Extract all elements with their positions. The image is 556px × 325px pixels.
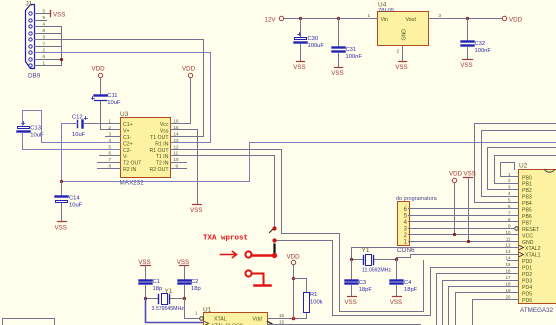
terminal 12V input — [265, 16, 284, 23]
wire DB9 loopback vertical — [61, 27, 63, 66]
svg-text:XTAL1: XTAL1 — [525, 253, 541, 259]
wire C1 to crystal row — [145, 286, 147, 299]
svg-text:100uF: 100uF — [308, 43, 325, 49]
terminal VDD output — [502, 16, 522, 23]
wire PB3 from right edge — [482, 131, 556, 197]
U1 output marker — [268, 322, 272, 325]
U3 internal pin names left — [123, 122, 142, 173]
svg-text:R2 OUT: R2 OUT — [149, 167, 169, 173]
wire 12V to U4 Vin — [284, 18, 378, 20]
wire junction to C14 — [61, 182, 63, 197]
svg-text:C11: C11 — [107, 93, 117, 99]
svg-text:XTAL: XTAL — [214, 317, 227, 323]
wire U3 pin11 T1IN down to jumper — [171, 156, 275, 227]
capacitor C2 18p — [179, 279, 201, 292]
svg-text:14: 14 — [505, 256, 511, 261]
capacitor C31 100nF — [333, 47, 363, 60]
power VSS above GND row — [464, 171, 476, 178]
wire C13 top loop to U3 pin4 — [23, 111, 121, 143]
power VSS below C4 — [390, 297, 402, 307]
wire PD5 from bottom — [456, 293, 508, 325]
svg-text:CON6: CON6 — [397, 247, 415, 254]
svg-text:VDD: VDD — [509, 17, 523, 24]
svg-text:13: 13 — [174, 138, 180, 143]
svg-text:J1: J1 — [26, 1, 33, 8]
svg-text:16: 16 — [505, 269, 511, 274]
svg-text:VSS: VSS — [460, 62, 472, 69]
svg-text:TXA wprost: TXA wprost — [203, 235, 248, 243]
svg-text:C4: C4 — [404, 280, 412, 286]
svg-text:DB9: DB9 — [28, 73, 41, 80]
wire C4 to VSS — [396, 286, 398, 297]
U3 pin2 row alias — [106, 129, 121, 131]
svg-text:T2 IN: T2 IN — [156, 161, 169, 167]
svg-text:VDD: VDD — [449, 171, 463, 178]
svg-text:18p: 18p — [153, 286, 163, 292]
wire bottom left stub — [3, 319, 55, 325]
wire to C30 — [300, 19, 302, 37]
node DB9 loop junction — [60, 58, 63, 61]
power VSS below U3 — [190, 205, 202, 215]
capacitor C13 10uF — [18, 122, 44, 139]
svg-text:PB3: PB3 — [522, 195, 532, 201]
svg-text:C13: C13 — [30, 126, 41, 132]
regulator U4 78L05 body — [378, 12, 429, 46]
wire DB9 pin2 to U3 R1IN — [35, 53, 211, 143]
svg-text:11: 11 — [506, 236, 511, 241]
svg-text:Y1: Y1 — [362, 247, 370, 254]
node VDD VCC — [453, 233, 456, 236]
wire VDD to C11 — [100, 78, 102, 95]
svg-text:C2-: C2- — [123, 148, 132, 154]
wire crystal row Y1b — [146, 298, 185, 300]
U1 clock arrow — [205, 322, 209, 325]
wire C12 left plate down to junction row — [62, 124, 78, 182]
power VDD above VCC row — [449, 171, 463, 183]
module U1 XTAL CLOCK body — [204, 313, 268, 325]
svg-text:12: 12 — [505, 243, 511, 248]
wire C14 to VSS — [61, 204, 63, 222]
crystal Y1 3.579545MHz — [152, 288, 185, 312]
svg-text:PD0: PD0 — [522, 259, 532, 265]
U3 left pin stubs — [98, 124, 121, 169]
capacitor C32 100nF — [462, 41, 492, 54]
svg-text:T1 OUT: T1 OUT — [150, 135, 169, 141]
node Vout C32 — [466, 17, 469, 20]
wire GND junction row under U3 — [62, 143, 556, 182]
U3 right pin numbers — [174, 118, 180, 168]
svg-text:PB5: PB5 — [522, 208, 532, 214]
wire C11 to U3 pin2 — [101, 102, 121, 130]
power VSS below C14 — [55, 222, 67, 232]
power VSS at DB9 pin5 — [51, 11, 66, 19]
svg-text:18: 18 — [505, 282, 511, 287]
svg-text:12: 12 — [174, 144, 180, 149]
power VSS below C3 — [344, 297, 356, 307]
svg-text:R2 IN: R2 IN — [123, 167, 137, 173]
svg-text:MAX232: MAX232 — [120, 180, 145, 187]
svg-text:VDD: VDD — [287, 254, 301, 261]
wire CON6 pin3 to RESET — [409, 228, 515, 230]
svg-text:VCC: VCC — [522, 233, 533, 239]
jumper pin tick — [270, 230, 273, 233]
wire U1 Vdd row to R1 — [268, 313, 307, 319]
node crystal right — [395, 258, 398, 261]
svg-text:15: 15 — [279, 320, 285, 325]
svg-text:PD6: PD6 — [522, 298, 532, 304]
svg-text:VDD: VDD — [92, 66, 106, 73]
power VSS below C31 — [331, 68, 343, 78]
svg-text:11.0592MHz: 11.0592MHz — [362, 268, 391, 274]
wire VDD tap to R1 top — [294, 279, 307, 293]
svg-text:10uF: 10uF — [107, 100, 121, 106]
capacitor C4 18pF — [391, 280, 418, 293]
svg-text:U3: U3 — [120, 111, 129, 118]
wire CON6 pin4 to PB7 — [409, 221, 508, 223]
svg-text:18p: 18p — [191, 286, 201, 292]
node crystal left — [350, 258, 353, 261]
annotation arrow — [221, 252, 237, 258]
wire VSS to GND row — [468, 178, 470, 242]
svg-text:GND: GND — [522, 240, 534, 246]
svg-text:XTAL2: XTAL2 — [525, 246, 541, 252]
svg-text:PD2: PD2 — [522, 272, 532, 278]
svg-text:do programatora: do programatora — [396, 196, 438, 202]
wire to C32 — [467, 19, 469, 41]
wire C1 junction to U1 clock pin — [146, 299, 204, 323]
svg-text:VSS: VSS — [344, 299, 356, 306]
wire crystal row Y1 — [352, 259, 397, 261]
svg-text:20: 20 — [505, 294, 511, 299]
connector J1 DB9 body — [26, 5, 35, 69]
U3 left pin numbers — [109, 118, 112, 168]
svg-text:VSS: VSS — [390, 299, 402, 306]
svg-text:C1: C1 — [153, 279, 160, 285]
U2 XTAL1 clock arrow — [520, 253, 524, 257]
svg-text:C30: C30 — [308, 36, 319, 42]
svg-text:PB2: PB2 — [522, 188, 532, 194]
svg-text:78L05: 78L05 — [378, 8, 394, 14]
svg-text:C3: C3 — [359, 280, 366, 286]
node 12V C31 — [337, 17, 340, 20]
wire PB4 from right edge — [475, 124, 556, 203]
crystal Y1 11.0592MHz — [362, 247, 392, 274]
annotation link top — [252, 254, 273, 257]
U4 pin numbers — [368, 13, 442, 54]
svg-text:Vin: Vin — [381, 17, 389, 23]
capacitor C30 100uF — [295, 33, 325, 50]
svg-text:R1: R1 — [310, 292, 317, 298]
svg-text:VSS: VSS — [293, 64, 305, 71]
DB9 pin stubs — [35, 14, 62, 66]
DB9 pin circles — [29, 12, 32, 67]
wire U3 pin12 R1OUT to PD0 — [171, 150, 424, 312]
wire C3 to VSS — [351, 286, 353, 297]
svg-text:Y1: Y1 — [165, 288, 173, 295]
power VSS below C30 — [293, 62, 305, 72]
U1 pin1 bubble — [200, 317, 204, 321]
power VDD above R1 — [287, 254, 301, 265]
svg-text:VSS: VSS — [464, 171, 476, 178]
svg-text:C2: C2 — [191, 279, 198, 285]
U2 XTAL2 clock arrow — [520, 246, 524, 250]
wire C13 bottom to U3 pin5 — [23, 134, 121, 150]
svg-text:14: 14 — [174, 131, 180, 136]
wire PD4 from bottom — [449, 287, 508, 325]
U2 internal pin names — [522, 175, 541, 304]
svg-text:VSS: VSS — [331, 70, 343, 77]
annotation circle top — [245, 251, 251, 257]
svg-text:100k: 100k — [310, 300, 323, 306]
svg-text:T1 IN: T1 IN — [156, 154, 169, 160]
svg-text:V+: V+ — [123, 128, 130, 134]
DB9 pin numbers — [43, 9, 46, 66]
node 12V C30 — [299, 17, 302, 20]
U3 internal pin names right — [149, 122, 169, 173]
wire U1 clock out row — [268, 324, 421, 325]
wire C2 to crystal row — [184, 286, 186, 299]
svg-text:R1 IN: R1 IN — [155, 141, 169, 147]
U4 internal labels — [381, 17, 417, 41]
annotation circle bottom — [245, 270, 251, 276]
svg-text:Vdd: Vdd — [253, 317, 262, 323]
svg-text:18pF: 18pF — [359, 287, 373, 293]
svg-text:13: 13 — [505, 249, 511, 254]
svg-text:18pF: 18pF — [404, 287, 418, 293]
node U1 Vdd VDD — [292, 317, 296, 321]
annotation link bottom — [252, 274, 264, 285]
wire U4 Vout to VDD terminal — [429, 18, 503, 20]
svg-text:GND: GND — [402, 29, 408, 41]
wire C31 to VSS — [338, 53, 340, 67]
wire VDD to VCC row — [454, 183, 456, 235]
wire to C31 — [338, 19, 340, 47]
wire PB0 loop — [501, 163, 515, 177]
capacitor C3 18pF — [346, 280, 373, 293]
svg-text:16: 16 — [174, 118, 180, 123]
resistor R1 100k — [304, 292, 323, 313]
svg-text:10uF: 10uF — [72, 132, 86, 138]
wire VSS to C2 — [184, 266, 186, 280]
power VSS below U4 — [395, 62, 407, 72]
op IC U3 MAX232 body — [121, 118, 171, 178]
node jumper bottom contact — [272, 238, 276, 242]
annotation ground bar — [255, 284, 271, 287]
svg-text:VSS: VSS — [53, 12, 65, 19]
svg-text:VSS: VSS — [55, 224, 67, 231]
wire CON6 pin2 to VCC — [409, 234, 508, 236]
svg-text:ATMEGA32: ATMEGA32 — [520, 307, 554, 314]
svg-text:PB6: PB6 — [522, 214, 532, 220]
svg-text:C31: C31 — [346, 47, 357, 53]
wire PB2 from right edge — [488, 148, 556, 190]
svg-text:17: 17 — [505, 275, 511, 280]
wire CON6 pin1 to GND — [409, 241, 508, 243]
wire PD6 from bottom — [473, 300, 508, 325]
wire U3 pin15 to VSS — [171, 130, 198, 205]
U2 RESET bubble — [515, 227, 519, 231]
U2 pin numbers — [505, 172, 511, 300]
svg-text:PB4: PB4 — [522, 201, 532, 207]
power VSS above C2 — [177, 259, 189, 266]
connector CON6 body — [398, 202, 410, 246]
svg-text:C12: C12 — [72, 115, 83, 121]
wire PD1 from jumper — [275, 241, 508, 316]
wire U4 GND to VSS — [402, 46, 404, 61]
capacitor C14 10uF — [56, 196, 83, 209]
svg-text:C1+: C1+ — [123, 122, 133, 128]
svg-text:Vout: Vout — [406, 17, 417, 23]
wire C12 right plate to U3 pin1 — [85, 123, 121, 125]
jumper pin bar — [273, 245, 275, 253]
node VSS GND — [467, 240, 470, 243]
svg-text:PD1: PD1 — [522, 266, 532, 272]
svg-text:PD5: PD5 — [522, 291, 532, 297]
node Y1b right — [183, 297, 186, 300]
svg-text:R1 OUT: R1 OUT — [149, 148, 169, 154]
wire XTAL2 row to crystal — [352, 248, 508, 260]
wire DB9 pin3 to U3 T1OUT — [35, 40, 204, 137]
svg-text:C1-: C1- — [123, 135, 132, 141]
wire crystal left to C3 — [351, 260, 353, 280]
svg-text:PB0: PB0 — [522, 175, 532, 181]
node Y1b left — [144, 297, 147, 300]
power VSS above C1 — [138, 259, 150, 266]
wire C2 junction to U1 pin1 — [185, 299, 199, 319]
capacitor C11 10uF — [92, 93, 121, 106]
wire VDD down to U1 Vdd row — [293, 265, 295, 319]
svg-text:15: 15 — [505, 262, 511, 267]
wire CON6 pin6 to PB5 — [409, 208, 508, 210]
svg-text:12V: 12V — [265, 17, 277, 24]
svg-text:11: 11 — [174, 151, 179, 156]
svg-text:PB7: PB7 — [522, 220, 532, 226]
power VSS below C32 — [460, 60, 472, 70]
wire C32 to VSS — [467, 47, 469, 59]
svg-text:U1: U1 — [203, 307, 212, 314]
svg-text:C2+: C2+ — [123, 141, 133, 147]
svg-text:C14: C14 — [69, 196, 80, 202]
U1 internal labels — [212, 317, 262, 325]
svg-text:VDD: VDD — [182, 66, 196, 73]
svg-text:100nF: 100nF — [346, 54, 363, 60]
svg-text:V-: V- — [123, 154, 128, 160]
svg-text:Vcc: Vcc — [160, 122, 169, 128]
svg-text:VSS: VSS — [395, 64, 407, 71]
svg-text:10uF: 10uF — [69, 203, 83, 209]
svg-text:3.579545MHz: 3.579545MHz — [152, 306, 185, 312]
wire VDD to U3 pin16 — [171, 78, 191, 124]
svg-text:100nF: 100nF — [475, 48, 492, 54]
wire CON6 pin5 to PB6 — [409, 215, 508, 217]
svg-text:PD3: PD3 — [522, 279, 532, 285]
U3 right pin stubs — [171, 163, 187, 169]
power VDD above U3 pin16 — [182, 66, 196, 78]
wire crystal right to C4 — [396, 260, 398, 280]
capacitor C12 10uF — [72, 115, 88, 139]
capacitor C1 18p — [140, 279, 163, 292]
wire PD3 from bottom — [443, 281, 508, 325]
node jumper top contact — [272, 226, 276, 230]
svg-text:PD4: PD4 — [522, 285, 532, 291]
U2 pin stubs — [508, 177, 519, 300]
svg-text:C32: C32 — [475, 41, 486, 47]
svg-text:16: 16 — [279, 313, 285, 318]
wire PD2 from bottom — [437, 274, 508, 325]
svg-text:Vss: Vss — [160, 128, 169, 134]
U2 notch — [545, 170, 555, 173]
svg-text:VSS: VSS — [190, 207, 202, 214]
annotation link end blob — [272, 253, 277, 258]
svg-text:T2 OUT: T2 OUT — [123, 161, 142, 167]
svg-text:RESET: RESET — [522, 227, 540, 233]
CON6 pin numbers — [404, 207, 408, 245]
svg-text:10: 10 — [174, 157, 180, 162]
wire XTAL1 row to crystal — [397, 255, 508, 260]
wire C30 to VSS — [300, 45, 302, 61]
node junction C14 — [60, 180, 63, 183]
wire VSS to C1 — [145, 266, 147, 280]
svg-text:U2: U2 — [519, 163, 528, 170]
power VDD above C11 — [92, 66, 106, 78]
node VDD R1 tap — [292, 277, 295, 280]
wire PB1 from right edge — [495, 156, 556, 184]
svg-text:PB1: PB1 — [522, 182, 532, 188]
microcontroller U2 ATMEGA32 body — [519, 170, 556, 304]
